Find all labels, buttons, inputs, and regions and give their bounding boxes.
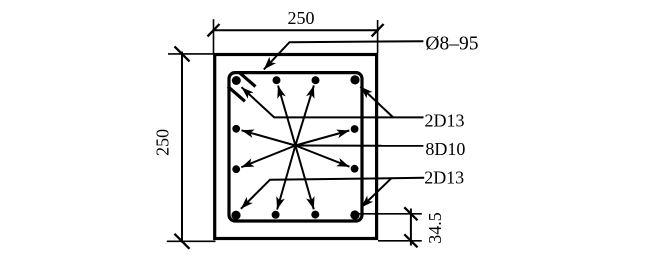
right dimension tick bottom [404, 234, 417, 247]
stirrup tie Ø8 [229, 73, 362, 221]
leader lines to bottom corner bars (2D13) [241, 178, 424, 209]
arrow to right lower bar [295, 146, 349, 167]
left dimension line 250 [181, 52, 183, 243]
bar D10 top mid-right [312, 76, 320, 84]
leader line from center (8D10) [295, 145, 423, 147]
bar D10 left upper [232, 125, 240, 133]
right dimension extension line top [357, 213, 422, 215]
arrow to bottom mid-left bar [276, 146, 295, 210]
svg-text:8D10: 8D10 [425, 139, 465, 159]
bar D10 left lower [232, 165, 240, 173]
svg-text:250: 250 [153, 129, 173, 156]
arrow to right upper bar [295, 130, 349, 146]
arrow to left lower bar [241, 146, 295, 168]
stirrup hook stroke lower [228, 87, 245, 102]
arrow to top mid-left bar [277, 85, 295, 145]
column section outline 250x250 [215, 55, 377, 239]
top dimension extension line right [377, 20, 379, 53]
svg-text:2D13: 2D13 [424, 168, 464, 188]
left dimension tick bottom [175, 234, 190, 249]
right dimension line 34.5 [410, 209, 412, 246]
corner bar D13 top-right [350, 75, 359, 84]
bar D10 right lower [351, 165, 359, 173]
leader lines to top corner bars (2D13) [242, 87, 424, 118]
corner bar D13 bottom-right [350, 210, 359, 219]
leader line to stirrup (Ø8–95) [264, 41, 424, 69]
bar D10 top mid-left [273, 76, 281, 84]
svg-text:Ø8–95: Ø8–95 [425, 34, 478, 55]
right dimension tick top [404, 207, 417, 220]
left dimension extension line top [168, 53, 215, 55]
right dimension extension line bottom [378, 240, 422, 242]
corner bar D13 bottom-left [231, 211, 240, 220]
svg-text:2D13: 2D13 [425, 111, 465, 131]
top dimension tick left [208, 24, 220, 36]
svg-text:34.5: 34.5 [425, 212, 445, 244]
arrow to left upper bar [241, 130, 295, 146]
left dimension tick top [175, 46, 190, 61]
bar D10 bottom mid-right [311, 211, 319, 219]
top dimension extension line left [213, 19, 215, 53]
arrow to top mid-right bar [295, 85, 314, 145]
top dimension tick right [372, 24, 384, 36]
top dimension line 250 [213, 29, 380, 31]
svg-text:250: 250 [288, 8, 315, 28]
bar D10 right upper [351, 125, 359, 133]
arrow to bottom mid-right bar [295, 146, 314, 210]
left dimension extension line bottom [167, 240, 216, 242]
bar D10 bottom mid-left [272, 211, 280, 219]
corner bar D13 top-left [232, 76, 241, 85]
stirrup hook stroke upper [240, 73, 256, 87]
